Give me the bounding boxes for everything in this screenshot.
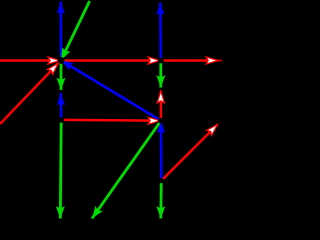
wire green vertical below A [60, 60, 63, 90]
arrowhead red hollow into C on D-C line [148, 117, 160, 124]
wire red faint tail right edge [218, 60, 222, 62]
wire green vertical below E [159, 181, 162, 219]
wire green vertical below B [159, 61, 162, 88]
arrowhead red hollow into B on main line [148, 57, 160, 64]
arrowhead blue up from E into C [157, 121, 165, 133]
wire blue diagonal C to A [61, 60, 161, 120]
arrowhead blue diagonal into A [61, 60, 74, 70]
wire red main horizontal [0, 59, 218, 62]
node B [158, 58, 164, 64]
arrowhead green down bottom column D [56, 206, 65, 218]
arrowhead green down bottom column E [156, 206, 165, 218]
wire red diagonal E up-right [161, 125, 217, 181]
arrowhead red hollow right end of main line [206, 57, 218, 64]
vector diagram [0, 0, 222, 222]
node D [58, 117, 64, 123]
arrowhead green down below A [57, 78, 66, 90]
wire blue vertical E to C [160, 121, 163, 181]
node A [58, 57, 65, 64]
wire red diagonal lower-left to node A [0, 60, 61, 124]
wire blue vertical above B [159, 3, 162, 61]
wire green long diagonal C down-left [92, 121, 161, 219]
wire blue vertical above A [59, 2, 62, 61]
wire red vertical above C [160, 91, 163, 121]
arrowhead blue up at top of column B [156, 3, 164, 15]
arrowhead red hollow diagonal up-right from E [207, 125, 218, 136]
arrowhead green long diagonal tip [92, 206, 103, 219]
wire red horizontal D to C [61, 119, 161, 122]
wire green long vertical below D [59, 120, 63, 219]
arrowhead green diagonal into A [61, 47, 70, 60]
node E [159, 178, 164, 183]
arrowhead green down below B [156, 75, 165, 87]
arrowhead blue up from D [57, 93, 65, 105]
arrowhead red hollow diagonal into A [47, 63, 58, 74]
node C [158, 118, 164, 124]
wire blue vertical D up [59, 93, 62, 120]
arrowhead red hollow into A on main line [48, 57, 60, 64]
arrowhead red hollow up above C [157, 91, 164, 103]
wire green diagonal top to A [61, 1, 90, 60]
arrowhead blue up at top of column A [57, 2, 65, 14]
